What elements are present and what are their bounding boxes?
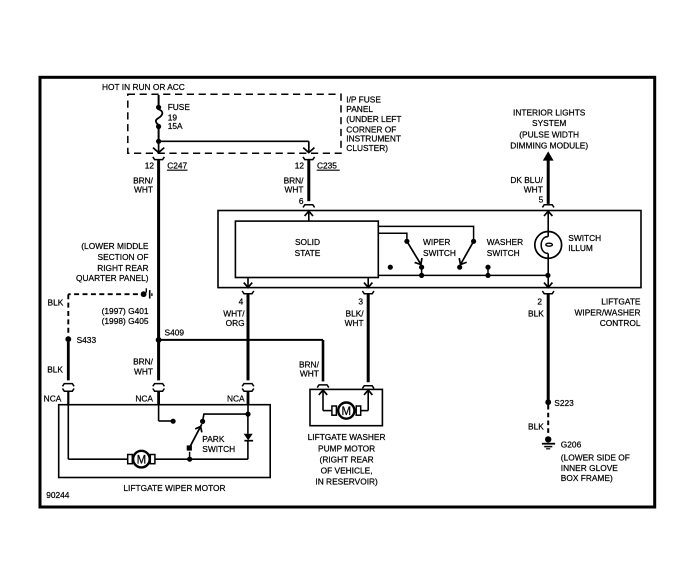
- svg-text:SECTION OF: SECTION OF: [98, 252, 149, 262]
- svg-text:15A: 15A: [168, 121, 183, 131]
- svg-text:(1998) G405: (1998) G405: [102, 316, 149, 326]
- svg-text:S223: S223: [554, 398, 574, 408]
- svg-text:SOLID: SOLID: [295, 237, 320, 247]
- svg-text:WHT: WHT: [134, 185, 153, 195]
- svg-text:5: 5: [539, 195, 544, 205]
- svg-text:LIFTGATE WIPER MOTOR: LIFTGATE WIPER MOTOR: [123, 483, 225, 493]
- svg-text:SWITCH: SWITCH: [202, 444, 235, 454]
- svg-text:(LOWER MIDDLE: (LOWER MIDDLE: [81, 241, 149, 251]
- svg-text:90244: 90244: [46, 490, 70, 500]
- svg-text:NCA: NCA: [227, 393, 245, 403]
- svg-text:DIMMING MODULE): DIMMING MODULE): [510, 140, 588, 150]
- svg-text:ILLUM: ILLUM: [568, 243, 593, 253]
- svg-text:WASHER: WASHER: [487, 237, 523, 247]
- svg-text:ORG: ORG: [226, 318, 245, 328]
- svg-text:LIFTGATE WASHER: LIFTGATE WASHER: [308, 432, 386, 442]
- svg-text:INTERIOR LIGHTS: INTERIOR LIGHTS: [513, 107, 586, 117]
- svg-text:BLK/: BLK/: [346, 308, 365, 318]
- svg-text:HOT IN RUN OR ACC: HOT IN RUN OR ACC: [102, 82, 185, 92]
- svg-text:WIPER: WIPER: [423, 237, 450, 247]
- svg-text:BRN/: BRN/: [133, 357, 154, 367]
- svg-text:CONTROL: CONTROL: [600, 318, 641, 328]
- svg-text:SWITCH: SWITCH: [487, 248, 520, 258]
- svg-text:WHT: WHT: [134, 366, 153, 376]
- svg-text:(1997) G401: (1997) G401: [102, 306, 149, 316]
- svg-text:NCA: NCA: [135, 393, 153, 403]
- svg-text:IN RESERVOIR): IN RESERVOIR): [315, 476, 378, 486]
- svg-text:INNER GLOVE: INNER GLOVE: [561, 463, 618, 473]
- svg-text:WHT: WHT: [524, 185, 543, 195]
- svg-text:BLK: BLK: [47, 365, 63, 375]
- svg-text:2: 2: [537, 296, 542, 306]
- svg-text:RIGHT REAR: RIGHT REAR: [97, 263, 148, 273]
- svg-text:(UNDER LEFT: (UNDER LEFT: [346, 114, 401, 124]
- svg-text:INSTRUMENT: INSTRUMENT: [346, 134, 401, 144]
- svg-text:WHT: WHT: [285, 185, 304, 195]
- svg-text:3: 3: [358, 296, 363, 306]
- svg-text:M: M: [137, 454, 147, 466]
- svg-text:S433: S433: [77, 335, 97, 345]
- svg-text:(LOWER SIDE OF: (LOWER SIDE OF: [561, 453, 630, 463]
- svg-text:PARK: PARK: [202, 434, 225, 444]
- svg-text:BLK: BLK: [48, 298, 64, 308]
- svg-text:M: M: [342, 406, 352, 418]
- svg-text:WHT/: WHT/: [223, 308, 245, 318]
- svg-text:WHT: WHT: [300, 369, 319, 379]
- svg-text:PANEL: PANEL: [346, 104, 373, 114]
- svg-text:FUSE: FUSE: [168, 102, 191, 112]
- svg-text:12: 12: [145, 161, 155, 171]
- svg-text:6: 6: [299, 196, 304, 206]
- svg-text:STATE: STATE: [295, 248, 321, 258]
- svg-text:NCA: NCA: [44, 393, 62, 403]
- svg-text:BOX FRAME): BOX FRAME): [561, 473, 613, 483]
- svg-text:OF VEHICLE,: OF VEHICLE,: [321, 465, 373, 475]
- svg-text:(PULSE WIDTH: (PULSE WIDTH: [519, 130, 579, 140]
- svg-text:SYSTEM: SYSTEM: [532, 118, 566, 128]
- svg-text:4: 4: [239, 296, 244, 306]
- svg-text:S409: S409: [165, 328, 185, 338]
- svg-text:QUARTER PANEL): QUARTER PANEL): [76, 273, 149, 283]
- svg-text:C235: C235: [317, 161, 337, 171]
- svg-text:BLK: BLK: [528, 308, 544, 318]
- svg-text:G206: G206: [561, 439, 582, 449]
- svg-text:SWITCH: SWITCH: [423, 248, 456, 258]
- svg-text:WIPER/WASHER: WIPER/WASHER: [575, 307, 641, 317]
- svg-text:(RIGHT REAR: (RIGHT REAR: [320, 454, 374, 464]
- svg-text:PUMP MOTOR: PUMP MOTOR: [318, 443, 375, 453]
- svg-text:DK BLU/: DK BLU/: [510, 175, 543, 185]
- svg-text:WHT: WHT: [345, 318, 364, 328]
- svg-text:LIFTGATE: LIFTGATE: [601, 296, 641, 306]
- svg-text:C247: C247: [167, 161, 187, 171]
- svg-text:CLUSTER): CLUSTER): [346, 143, 388, 153]
- svg-text:12: 12: [295, 161, 305, 171]
- svg-text:SWITCH: SWITCH: [568, 233, 601, 243]
- svg-text:BLK: BLK: [528, 421, 544, 431]
